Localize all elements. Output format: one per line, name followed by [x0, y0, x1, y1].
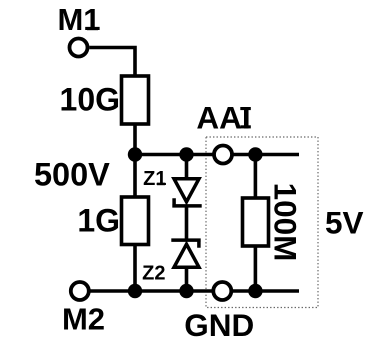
resistor 10G: [122, 76, 149, 124]
serif details: foot serif of digit 1 in 10G: [63, 107, 74, 110]
terminal AAI (open circle): [214, 146, 232, 164]
resistor 1G: [122, 197, 149, 245]
svg-text:1G: 1G: [77, 203, 120, 239]
wire M1 to resistor 10G: [89, 48, 135, 77]
svg-text:500V: 500V: [34, 157, 110, 193]
wire top bus: [135, 153, 299, 157]
terminal GND (open circle): [213, 282, 231, 300]
junction dot top right: [248, 147, 262, 161]
resistor 100M: [243, 198, 269, 246]
terminal M1 (open circle): [70, 39, 88, 57]
wire zener Z1 to zener Z2: [185, 206, 189, 240]
wire top bus to resistor 100M: [254, 155, 258, 199]
junction dot bottom left: [128, 284, 142, 298]
serif details: foot serif of digit 1 in Z1: [157, 183, 165, 186]
wire 100M to bottom bus: [254, 246, 258, 291]
svg-text:10G: 10G: [60, 82, 120, 118]
wire 1G to bottom bus: [133, 245, 137, 292]
svg-text:5V: 5V: [325, 205, 364, 241]
wire top bus to zener Z1: [185, 155, 189, 179]
serif details: serifs of letter I in AAI: [240, 107, 251, 110]
junction dot top middle: [179, 147, 193, 161]
svg-text:M2: M2: [62, 301, 105, 336]
svg-text:Z1: Z1: [143, 168, 166, 190]
junction dot bottom right: [248, 284, 262, 298]
serif details: foot serif of digit 1 in M1: [87, 27, 98, 30]
zener diode Z1: [172, 179, 201, 206]
svg-text:100M: 100M: [268, 183, 304, 262]
serif details: foot serif of digit 1 in 100M (rotated): [275, 186, 278, 197]
svg-text:M1: M1: [57, 2, 100, 37]
wire node A to resistor 1G: [133, 155, 137, 198]
wire M2 to bottom bus: [90, 289, 135, 293]
serif details: foot serif of digit 1 in 1G: [81, 228, 92, 231]
junction dot bottom middle: [179, 284, 193, 298]
wire 10G to node A: [133, 124, 137, 155]
svg-text:GND: GND: [184, 307, 254, 343]
terminal M2 (open circle): [71, 282, 89, 300]
junction dot node A top-left: [128, 147, 142, 161]
wire zener Z2 to bottom bus: [185, 267, 189, 291]
boundary box (dotted enclosure): [206, 137, 318, 308]
svg-text:AAI: AAI: [196, 100, 250, 136]
wire bottom bus: [135, 289, 299, 293]
zener diode Z2: [171, 240, 200, 267]
svg-text:Z2: Z2: [142, 263, 165, 285]
